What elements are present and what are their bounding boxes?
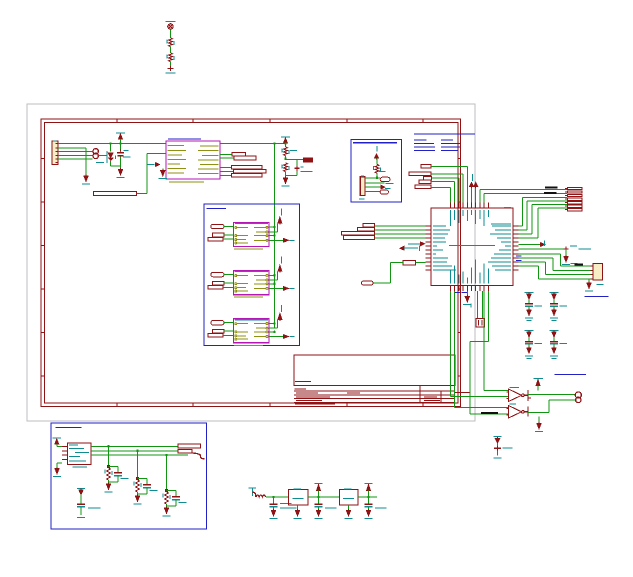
wire PD0 [479,189,481,202]
ground [271,511,275,516]
wire gate out 1 [528,393,576,395]
resistor R14 capsule [380,190,388,194]
label [290,150,297,152]
wire [170,30,172,38]
inductor L1 [256,495,266,497]
supply arrow [53,437,62,439]
frame column ticks bottom [116,403,118,407]
frame outer [41,119,461,407]
decoupling capacitor [550,329,559,331]
black label [481,412,498,414]
U2 left pin ground [162,169,164,171]
fuse F1 figure-8 [93,149,98,154]
capacitor parallel [138,478,148,480]
frame row ticks left [41,158,45,160]
optocoupler OK2 box [234,271,269,295]
wire serial 4 [519,265,539,267]
wire collector OK1 [269,226,275,228]
group box optocouplers [204,204,300,346]
frame column ticks top [116,119,118,123]
resistor R4 [232,152,246,156]
ground [118,170,122,175]
decoupling capacitor [550,292,559,294]
wire collector OK3 [269,322,275,324]
wire OK1 out [269,231,277,233]
resistor vertical [136,480,140,492]
wire X1-4 [58,154,93,156]
wire U2 pin to R5 [220,157,234,159]
wire [375,229,426,231]
capacitor C14 [368,497,370,504]
connector X1 [52,141,58,165]
net stub [376,146,378,152]
resistor R3 long [94,192,137,196]
resistor R21 [358,228,375,232]
wire [224,273,234,275]
wire [375,233,426,235]
wire emitter OK3 [269,336,284,338]
connector X3 [593,264,603,281]
supply arrow OK2 [281,257,283,264]
wire AREF [519,248,567,250]
group title [207,208,227,210]
wire serial 3 [519,261,546,263]
supply arrow OK1 [281,209,283,216]
ground [466,291,468,297]
junction [165,489,168,492]
wire [431,186,450,188]
U1 bottom pin names [450,270,452,284]
wire U2 to R6 [220,167,232,169]
resistor R19 [415,185,431,189]
capacitor C1 [120,144,122,153]
decoupling capacitor [525,292,534,294]
wire X2-2 [365,182,385,184]
ground [283,178,287,183]
resistor R1 [169,38,173,47]
net stub arrow [519,244,541,246]
net labels blue [455,291,461,293]
U1 name text [449,245,495,247]
label [359,198,365,200]
wire U2 to VCC node [220,143,286,145]
ground [527,310,531,315]
resistor R20 [363,224,375,228]
U1 bottom pins [450,286,452,292]
net label stub 2 [400,246,404,250]
OK1 right pin names [254,226,266,228]
wire emitter OK2 [269,287,284,289]
supply VCC arrow [116,132,125,134]
resistor R17 [423,176,431,180]
wire [170,62,172,69]
label [96,162,104,164]
wire [170,47,172,54]
resistor input A OK1 [211,224,224,228]
resistor R24 box [403,260,416,265]
connector X5 [178,444,201,448]
gate output wiring [524,390,531,401]
ground [564,257,568,262]
wire bundle to X4 [522,197,524,226]
resistor R11 [284,163,288,172]
net stub arrow [471,187,473,203]
frame row ticks right [458,158,461,160]
U1 right pins [513,225,519,227]
resistor R23 [344,236,375,240]
resistor input B OK2 [213,281,225,285]
wire [224,282,234,284]
resistor R2 [169,53,173,62]
resistor R6 [232,166,263,170]
wire U2 to R7 [220,171,234,173]
wire [223,334,233,336]
IC U4 box [68,443,92,465]
supply VCC [534,378,544,380]
supply VCC2 [365,482,373,484]
sheet border [27,104,475,421]
resistor R5 [234,156,256,160]
resistor vertical [107,468,111,480]
wire [431,181,455,183]
resistor input B OK3 [213,329,225,333]
wire [431,177,459,179]
wire [224,234,234,236]
wire [224,330,234,332]
group box oscillator [351,140,402,202]
resistor R8 [232,174,263,178]
ground [552,310,556,315]
net label stub [408,243,420,245]
wire out 1 [91,445,178,447]
resistor R9 [285,144,287,147]
resistor R13 capsule [380,177,390,181]
wire drop 3 [166,455,168,490]
wire [137,492,139,496]
wire R3 to U2 [137,193,148,195]
wire PD1 [483,194,485,203]
junction [107,465,110,468]
wire [431,173,463,175]
wire [308,496,340,498]
ground [366,511,370,516]
OK3 value text [234,344,263,346]
wire long 1 [450,291,452,396]
junction node [284,142,287,145]
title block drawing box [294,355,455,386]
resistor R18 [419,180,431,184]
frame inner [45,123,459,404]
net stub arrow 2 [475,187,477,203]
group box power input [51,423,207,529]
OK3 left pin names [237,323,249,325]
decoupling capacitor [525,329,534,331]
wire [376,158,378,165]
net label blue [516,255,522,257]
OK2 right pin names [254,274,266,276]
wire X1-2 [58,147,86,149]
ground [168,66,174,71]
ground [164,508,168,513]
ground [552,348,556,353]
resistor input C OK2 [208,286,223,290]
title block column dividers [419,386,421,404]
wire [431,165,467,167]
wire X2-3 [365,186,381,188]
group title [56,427,82,429]
capacitor parallel [167,490,177,492]
wire out 2 [91,450,178,452]
wire [166,504,168,508]
ground [527,348,531,353]
wire emitter OK1 [269,239,284,241]
wire loop [296,160,298,176]
net name blue [585,296,609,298]
U1 left pin names [433,225,446,227]
resistor input A OK3 [211,321,224,325]
U2 left pin net label [147,164,155,166]
resistor R15 [421,164,431,168]
OK1 value text [234,248,263,250]
net labels column 1 [414,139,427,141]
U1 right pin names [492,225,511,227]
capacitor C13 [318,497,320,504]
title block text MI8 [295,388,307,390]
wire F1 out [98,154,107,156]
wire long 2 [454,291,456,408]
wire U4 gnd [57,462,62,464]
resistor input A OK2 [211,272,224,276]
U2 right pin names [200,145,219,147]
resistor input B OK1 [213,233,225,237]
optocoupler OK1 box [234,223,269,247]
ground [316,511,320,516]
OK1 left pin names [237,227,249,229]
wire [266,496,289,498]
group title line [353,142,397,144]
capacitor C10 [494,436,502,438]
regulator VR2 [340,490,359,506]
regulator VR1 [289,490,309,506]
wire [224,322,234,324]
wire to gate A1 [483,291,485,391]
gate U3A [509,389,522,402]
U4 left pins [62,445,68,447]
U2 value text [169,181,204,183]
wire serial 1 [519,253,561,255]
VR1 ground [297,505,299,511]
wire [416,262,426,264]
resistor R7 [234,170,267,174]
wire xtal net [487,291,489,342]
resistor R22 [342,232,375,236]
capacitor parallel [109,466,119,468]
jumper JP1 figure-8 [575,392,581,398]
U1 left pins [426,225,432,227]
capacitor C12 [273,497,275,504]
ground [135,496,139,501]
wire drop 1 [108,446,110,466]
resistor input C OK1 [208,237,223,241]
wire [376,173,378,178]
U2 left pin names [168,145,185,147]
supply arrow OK3 [281,305,283,312]
capacitor C11 standalone [77,487,85,489]
wire U2 pin to R4 [220,153,232,155]
supply arrow [375,154,379,158]
wire gate out 2 [528,412,549,414]
black label 2 [544,192,556,194]
net labels column 2 [441,139,453,141]
wire [223,286,233,288]
title block row lines [295,381,311,383]
wire drop 2 [137,451,139,479]
wire X1-3 [58,151,93,153]
black label [545,187,557,189]
ground [106,484,110,489]
wire OK2 out [269,279,277,281]
ground [55,469,59,474]
OK2 value text [234,296,263,298]
VR2 ground [348,505,350,511]
IC U1 box [431,208,513,286]
wire X1-1 to U2 [58,143,166,145]
wire node A [285,156,287,159]
OK2 left pin names [237,275,249,277]
supply input stub [251,488,253,497]
transistor Q1 small symbol [110,144,112,152]
wire X2 pins [365,177,377,179]
supply VCC arrow [281,136,290,138]
U1 top pin names [450,210,452,226]
wire [375,237,426,239]
wire VCC feed to optocouplers [273,142,276,145]
U1 top pins [450,203,452,209]
connector X2 [360,177,365,196]
wire out 3 [91,454,188,456]
resistor vertical [165,492,169,504]
wire U2 to R8 [220,175,232,177]
black label [575,263,584,265]
wire [358,496,377,498]
wire X1-5 [58,158,93,160]
wire collector OK2 [269,274,275,276]
junction [136,477,139,480]
IC U2 box [166,141,220,179]
resistor R10 [304,158,313,162]
net name blue [555,374,587,376]
IC U2 name [168,138,201,140]
gate U3B [509,406,522,419]
resistor R16 [409,172,431,176]
wire X2-4 [365,190,380,192]
supply VCC1 [315,482,323,484]
testpoint TP1 capsule [362,281,374,285]
ground [84,176,88,181]
resistor R12 [375,165,379,174]
wire [108,480,110,484]
bus label long [414,133,475,135]
ground [588,279,590,283]
wire serial 2 [519,257,554,259]
connector X4 [568,187,583,189]
ground [538,417,540,424]
resistor input C OK3 [208,334,223,338]
wire [224,225,234,227]
wire OK3 out [269,327,277,329]
power indicator net label bar [166,21,176,23]
wire [375,225,426,227]
OK3 right pin names [254,323,266,325]
wire [223,238,233,240]
optocoupler OK3 box [234,319,269,343]
crystal Q2 [477,291,479,319]
LED D1 [168,24,173,29]
U4 label [73,466,88,468]
